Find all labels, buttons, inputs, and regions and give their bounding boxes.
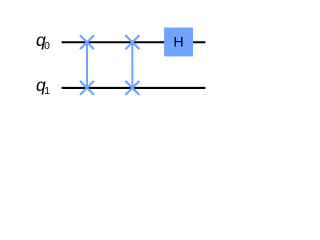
wire q1	[62, 87, 206, 89]
swap gate 2 vertical connector	[131, 42, 133, 88]
qubit label q1	[36, 75, 50, 97]
svg-text:0: 0	[44, 41, 50, 52]
qubit label q0	[36, 30, 50, 52]
svg-text:H: H	[173, 35, 183, 51]
swap gate 1 X mark on q0	[80, 35, 94, 49]
H gate box	[164, 28, 193, 57]
wire q0	[62, 41, 206, 43]
svg-text:1: 1	[44, 86, 50, 97]
swap gate 2 X mark on q1	[125, 81, 139, 95]
swap gate 1 vertical connector	[86, 42, 88, 88]
swap gate 1 X mark on q1	[80, 81, 94, 95]
swap gate 2 X mark on q0	[125, 35, 139, 49]
